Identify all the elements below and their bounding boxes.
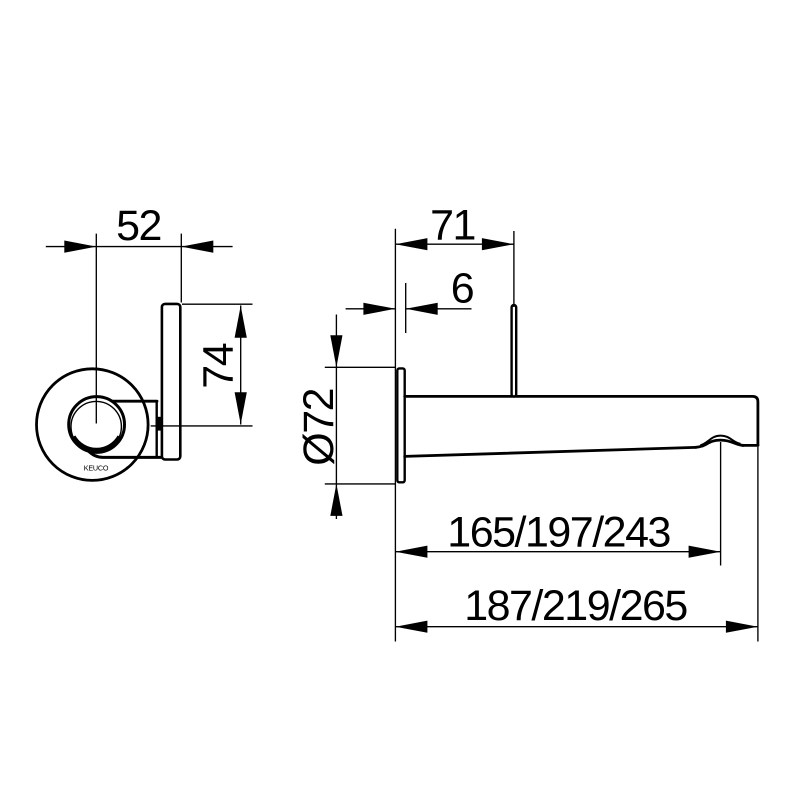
left extension line (wall face, side view)	[394, 229, 396, 642]
dim 6 extension line right	[405, 283, 407, 333]
dim 187 extension line right (spout end)	[757, 447, 759, 642]
svg-text:Ø72: Ø72	[295, 389, 343, 466]
spout bottom slope	[405, 447, 696, 456]
dim 187 arrow left	[395, 621, 427, 633]
spout bottom right flat	[743, 444, 758, 447]
spout outlet hump lower arc	[695, 440, 744, 447]
spout outlet hump upper arc	[700, 436, 740, 446]
svg-text:6: 6	[451, 264, 474, 312]
lever center line	[513, 231, 515, 307]
dim O72 line	[335, 315, 337, 520]
lever handle (front view)	[162, 304, 180, 460]
hub dark detail	[156, 417, 161, 431]
dim 74 line	[240, 306, 242, 425]
dim 6 arrow left	[363, 303, 395, 315]
dim 6 line left	[346, 308, 396, 310]
knob inner circle	[71, 401, 121, 451]
dim 6 line right	[406, 308, 472, 310]
dim 165 arrow left	[395, 546, 427, 558]
dim 74 extension line top	[182, 303, 253, 305]
hub bottom edge	[88, 450, 161, 457]
svg-text:187/219/265: 187/219/265	[464, 582, 687, 630]
dim 71 line	[395, 243, 514, 245]
svg-text:KEUCO: KEUCO	[84, 464, 109, 473]
escutcheon circle (front view)	[37, 369, 149, 481]
dim 187 arrow right	[726, 621, 758, 633]
knob bottom crescent arc	[74, 436, 119, 449]
dim 74 arrow top	[235, 306, 247, 338]
dim 52 line	[46, 246, 233, 248]
hub top edge	[112, 400, 157, 403]
knob outer circle	[69, 397, 125, 453]
dim 71 arrow right	[482, 238, 514, 250]
dim O72 extension bottom	[325, 483, 396, 485]
dim 187 line	[395, 626, 758, 628]
dim 52 extension line left	[95, 234, 97, 424]
svg-text:165/197/243: 165/197/243	[447, 509, 670, 557]
lever stick (side view)	[512, 305, 517, 397]
dim 165 extension line right (outlet center)	[720, 442, 722, 566]
dim 71 arrow left	[395, 238, 427, 250]
wall plate (side view)	[397, 368, 404, 482]
dim 74 arrow bottom	[235, 392, 247, 424]
dim 52 arrow left	[64, 241, 96, 253]
dim O72 arrow bottom	[330, 484, 342, 516]
dim O72 arrow top	[330, 335, 342, 367]
dim 165 arrow right	[689, 546, 721, 558]
hub end cap line	[155, 401, 157, 457]
dim 52 arrow right	[181, 241, 213, 253]
svg-text:52: 52	[116, 202, 161, 250]
dim 74 extension line bottom	[151, 425, 253, 427]
dim 6 arrow right	[406, 303, 438, 315]
spout top and right edge	[405, 396, 758, 445]
svg-text:71: 71	[430, 201, 475, 249]
dim 52 extension line right	[180, 234, 182, 303]
dim 165 line	[395, 551, 720, 553]
svg-text:74: 74	[195, 343, 243, 388]
dim O72 extension top	[325, 366, 396, 368]
